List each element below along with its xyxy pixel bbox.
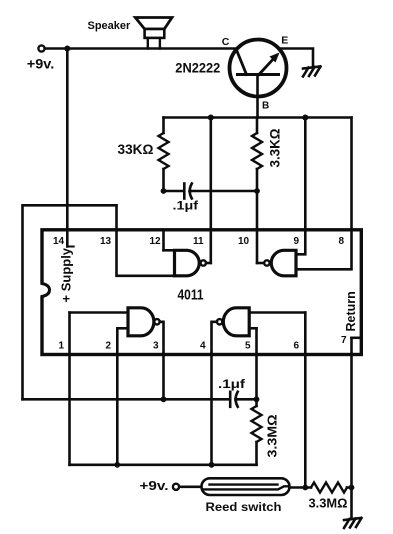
node line A / pin5 bbox=[254, 396, 260, 402]
svg-text:4011: 4011 bbox=[178, 287, 204, 304]
svg-text:Reed switch: Reed switch bbox=[206, 500, 282, 514]
svg-text:6: 6 bbox=[294, 341, 300, 352]
wire line A (pin3 node) bbox=[23, 398, 230, 401]
svg-text:33KΩ: 33KΩ bbox=[118, 141, 154, 157]
svg-text:3: 3 bbox=[153, 341, 159, 352]
node cap left bbox=[161, 188, 167, 194]
IC U1 4011 body bbox=[42, 230, 361, 355]
node line B / pin2 bbox=[114, 462, 120, 468]
pin 7 stub tick bbox=[352, 336, 361, 339]
pin 14 stub tick bbox=[67, 246, 73, 248]
svg-text:+ Supply: + Supply bbox=[59, 247, 74, 302]
node cap right bbox=[254, 188, 260, 194]
resistor R3 3.3MΩ (vertical) bbox=[255, 399, 258, 406]
NAND gate B (pins 8,9 -> 10) bbox=[264, 250, 296, 275]
svg-text:2N2222: 2N2222 bbox=[175, 60, 220, 76]
+9v terminal (bottom) bbox=[173, 484, 179, 490]
wire pin6 input to gate D bbox=[249, 311, 305, 314]
wire top rail bbox=[45, 47, 237, 50]
wire to reed switch bbox=[179, 485, 201, 488]
wire pin11 column bbox=[210, 118, 213, 264]
svg-text:14: 14 bbox=[53, 236, 65, 247]
svg-text:Speaker: Speaker bbox=[88, 20, 132, 32]
svg-text:10: 10 bbox=[238, 236, 250, 247]
svg-text:3.3KΩ: 3.3KΩ bbox=[268, 128, 283, 167]
resistor R2 3.3K column bbox=[256, 118, 259, 134]
wire gate B output to pin 10 bbox=[257, 262, 264, 265]
svg-text:B: B bbox=[262, 101, 269, 112]
svg-text:.1μf: .1μf bbox=[173, 199, 200, 213]
wire pin13 column bbox=[117, 205, 175, 275]
speaker LS1 bbox=[135, 18, 172, 49]
svg-text:+9v.: +9v. bbox=[140, 479, 169, 493]
wire pin7 / return rail bbox=[350, 338, 353, 519]
wire emitter to ground bbox=[280, 49, 313, 69]
node return rail bbox=[349, 485, 355, 491]
node junction top rail bbox=[64, 46, 70, 52]
wire gate D output to pin 4 bbox=[212, 322, 217, 353]
NAND gate D (pins 5,6 -> 4) bbox=[217, 308, 249, 336]
wire pin8 column bbox=[296, 118, 352, 270]
svg-text:E: E bbox=[281, 35, 288, 47]
IC notch bbox=[40, 284, 45, 297]
svg-text:+9v.: +9v. bbox=[27, 56, 54, 71]
wire pin5 column bbox=[255, 328, 258, 399]
svg-text:2: 2 bbox=[106, 341, 112, 352]
node reed / pin6 bbox=[302, 485, 308, 491]
svg-text:8: 8 bbox=[339, 236, 345, 247]
resistor R4 3.3MΩ (horizontal) bbox=[311, 483, 347, 493]
wire pin3 column below IC bbox=[162, 353, 165, 399]
svg-text:Return: Return bbox=[344, 291, 358, 331]
wire gate C output to pin 3 bbox=[160, 322, 164, 353]
NAND gate A (pins 12,13 -> 11) bbox=[175, 250, 207, 275]
svg-text:5: 5 bbox=[245, 341, 251, 352]
wire pin10 column (into IC to gate B output) bbox=[256, 191, 259, 263]
wire pin1 input to gate C bbox=[70, 311, 129, 314]
svg-text:13: 13 bbox=[100, 236, 112, 247]
svg-text:C: C bbox=[222, 36, 230, 48]
transistor Q1 2N2222 bbox=[230, 40, 287, 118]
wire pin1 column bbox=[68, 313, 71, 465]
wire reed to resistor bbox=[290, 486, 312, 489]
capacitor C2 .1μf (bottom) bbox=[229, 392, 232, 407]
ground (bottom, chassis) bbox=[344, 518, 362, 528]
node bus/pin11 bbox=[208, 115, 214, 121]
wire supply rail down to pin 14 bbox=[66, 49, 69, 247]
resistor R1 33K column bbox=[162, 118, 165, 134]
svg-text:9: 9 bbox=[294, 236, 300, 247]
svg-text:4: 4 bbox=[200, 341, 206, 352]
svg-text:3.3MΩ: 3.3MΩ bbox=[309, 496, 348, 511]
wire pin2 input to gate C bbox=[117, 327, 128, 330]
+9v terminal (top) bbox=[38, 45, 44, 51]
svg-text:11: 11 bbox=[193, 236, 204, 247]
svg-text:7: 7 bbox=[341, 335, 347, 346]
resistor R2 3.3KΩ bbox=[252, 133, 262, 169]
wire feedback loop left (pin13) bbox=[23, 205, 117, 399]
capacitor C1 .1μf (top) bbox=[164, 190, 184, 193]
NAND gate C (pins 1,2 -> 3) bbox=[128, 308, 160, 336]
reed switch S1 bbox=[202, 478, 290, 495]
wire gate A output to pin 11 bbox=[206, 262, 211, 265]
svg-text:.1μf: .1μf bbox=[218, 377, 246, 391]
wire line B (pin4 node) bbox=[70, 463, 257, 466]
wire pin5 input to gate D bbox=[249, 327, 256, 330]
svg-text:12: 12 bbox=[150, 236, 162, 247]
wire pin2 column bbox=[116, 328, 119, 465]
wire pin6 column below IC bbox=[304, 313, 307, 488]
ground (top, chassis) bbox=[303, 67, 321, 77]
node line A / pin3 bbox=[161, 396, 167, 402]
wire pin4 column below IC bbox=[210, 353, 213, 465]
wire pin9 column bbox=[296, 118, 305, 255]
svg-text:3.3MΩ: 3.3MΩ bbox=[265, 415, 280, 458]
wire pin12 input to gate A bbox=[164, 249, 175, 252]
node line B / pin4 bbox=[209, 462, 215, 468]
svg-text:1: 1 bbox=[59, 341, 65, 352]
resistor R1 33KΩ bbox=[159, 133, 169, 169]
wire base bus bbox=[164, 116, 352, 119]
node bus/pin9 bbox=[302, 115, 308, 121]
